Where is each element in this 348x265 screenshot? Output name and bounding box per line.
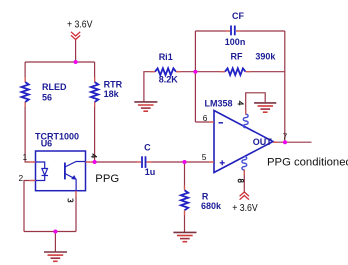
svg-text:6: 6 (203, 113, 208, 123)
wire RF left (195, 71, 225, 73)
wire top rail RLED/RTR (25, 61, 95, 63)
node output junction (283, 140, 287, 144)
wire bottom rail (24, 231, 76, 233)
resistor RLED (21, 82, 28, 102)
op-amp U1 LM358 (214, 111, 273, 173)
svg-text:8.2K: 8.2K (159, 75, 179, 85)
wire RLED branch lower to pin1 (25, 102, 35, 162)
wire pin4 to ground G3 (246, 93, 266, 115)
wire RTR branch lower to node PPG (94, 102, 96, 162)
power +3.6V bottom (240, 192, 249, 200)
svg-text:RF: RF (231, 51, 243, 61)
node C-R junction (183, 160, 187, 164)
ground G1 (44, 252, 67, 261)
pin 8 squiggle (V+ pin) (242, 156, 247, 170)
svg-text:1u: 1u (145, 167, 156, 177)
pin number 4 (U6) (91, 154, 96, 158)
svg-text:LM358: LM358 (205, 99, 233, 109)
svg-text:U6: U6 (41, 139, 53, 149)
svg-text:PPG conditioned: PPG conditioned (267, 156, 348, 168)
optocoupler U6 TCRT1000 (36, 151, 86, 191)
resistor RTR (91, 82, 98, 102)
wire feedback right vertical (284, 31, 286, 142)
wire output pin7 (273, 141, 312, 143)
wire RF right (246, 71, 285, 73)
wire C to pin5 (147, 161, 215, 163)
ground G4 (173, 232, 196, 241)
ground G2 (134, 102, 157, 111)
pin number 4 (op-amp) (238, 101, 243, 105)
svg-text:PPG: PPG (95, 173, 119, 185)
wire R branch upper (184, 162, 186, 190)
pin stubs (bright) (25, 31, 278, 215)
svg-text:RLED: RLED (42, 82, 67, 92)
capacitor CF (231, 26, 235, 36)
svg-text:100n: 100n (225, 37, 246, 47)
svg-text:390k: 390k (255, 51, 276, 61)
svg-text:680k: 680k (201, 201, 222, 211)
svg-text:7: 7 (283, 132, 288, 142)
ground G3 (254, 103, 276, 112)
wire RLED branch upper (24, 62, 26, 82)
node Ri1-RF junction (193, 70, 197, 74)
svg-text:56: 56 (42, 93, 52, 103)
wire pin2 to bottom rail (24, 181, 36, 232)
pin 4 squiggle (V- pin) (243, 114, 248, 128)
resistor R (181, 190, 188, 210)
svg-text:Ri1: Ri1 (159, 52, 173, 62)
svg-text:1: 1 (23, 152, 28, 162)
wire pin8 to +3.6V (243, 170, 245, 193)
svg-text:18k: 18k (104, 89, 120, 99)
svg-text:R: R (202, 191, 209, 201)
svg-text:+ 3.6V: + 3.6V (67, 20, 93, 31)
svg-text:OUT: OUT (253, 137, 273, 147)
wire RTR branch upper (94, 62, 96, 82)
wire CF top right (236, 30, 285, 32)
svg-text:C: C (144, 142, 151, 152)
svg-text:+ 3.6V: + 3.6V (232, 203, 258, 214)
wire CF top left (195, 30, 230, 32)
wire Ri1 ground stem G2 (144, 72, 155, 102)
wire +3.6V stem (75, 40, 77, 63)
capacitor C (142, 156, 146, 168)
wire Ri1 to node (176, 71, 195, 73)
wire ground stem G1 (54, 232, 56, 252)
svg-text:5: 5 (202, 152, 207, 162)
svg-text:2: 2 (19, 173, 24, 183)
pin number 3 (U6) (68, 199, 73, 202)
wire pin3 down (75, 191, 77, 232)
node ground junction (53, 230, 57, 234)
pin number 8 (op-amp) (238, 179, 243, 182)
wire feedback left vertical (194, 31, 196, 122)
wire R to ground (184, 210, 186, 232)
resistor RF (225, 68, 246, 75)
wire pin6 (195, 121, 214, 123)
svg-text:CF: CF (232, 11, 244, 21)
node PPG junction (93, 160, 97, 164)
resistor Ri1 (155, 68, 176, 75)
power +3.6V top (71, 32, 80, 40)
node junction top rail (74, 60, 78, 64)
wire node PPG to C (86, 161, 142, 163)
